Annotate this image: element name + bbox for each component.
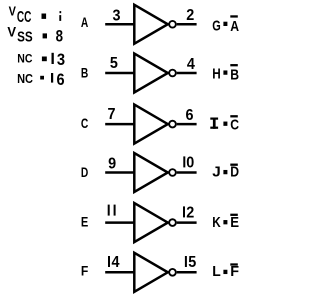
svg-text:5: 5 [188,254,196,271]
svg-text:6: 6 [186,107,194,124]
svg-text:5: 5 [110,55,118,72]
svg-text:6: 6 [57,70,65,89]
svg-text:H: H [212,66,221,83]
svg-text:K: K [212,214,221,231]
svg-text:B: B [230,66,239,83]
svg-text:4: 4 [187,56,195,73]
svg-text:D: D [230,163,239,180]
svg-text:2: 2 [186,7,194,24]
svg-text:C: C [230,117,239,134]
svg-text:G: G [212,17,221,34]
svg-text:V: V [7,24,16,39]
svg-text:J: J [212,163,221,180]
svg-text:V: V [9,5,17,19]
svg-text:C: C [81,115,88,131]
svg-text:CC: CC [17,9,32,26]
svg-text:A: A [230,18,239,35]
svg-text:F: F [81,262,89,278]
svg-text:8: 8 [56,26,63,45]
svg-text:NC: NC [17,72,33,86]
svg-text:B: B [81,65,88,81]
svg-text:E: E [81,213,88,229]
svg-text:L: L [212,263,221,280]
svg-text:9: 9 [108,156,116,173]
svg-text:3: 3 [57,50,65,69]
svg-text:D: D [81,164,88,180]
svg-text:A: A [81,14,88,30]
svg-text:0: 0 [186,154,194,171]
svg-text:SS: SS [17,29,33,46]
svg-text:E: E [230,214,239,231]
svg-text:NC: NC [17,52,32,66]
svg-text:3: 3 [113,8,121,25]
svg-text:2: 2 [186,204,194,221]
svg-text:4: 4 [112,254,120,271]
svg-text:7: 7 [108,106,116,123]
svg-text:F: F [230,263,239,280]
